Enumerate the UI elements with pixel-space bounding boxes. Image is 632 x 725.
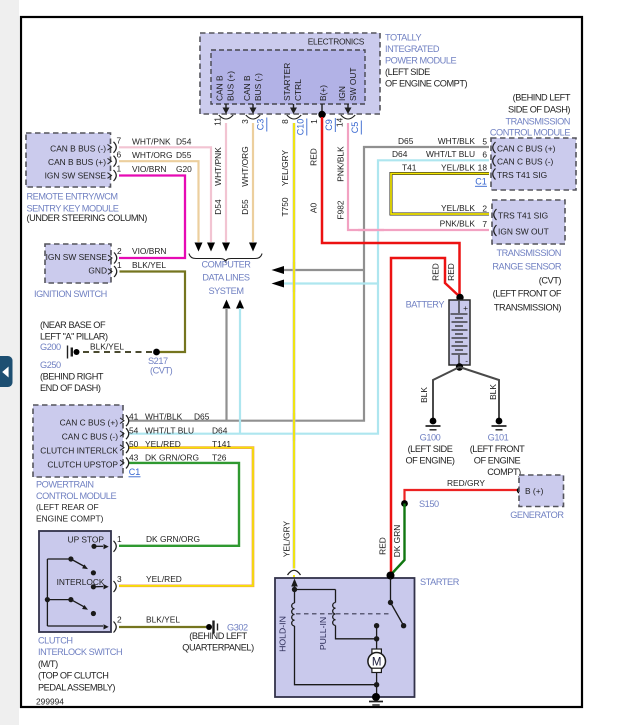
svg-text:DATA LINES: DATA LINES: [202, 273, 250, 283]
module TCM box: [491, 138, 576, 190]
wire YEL/BLK loop TCM pin18 to TRS pin2: [391, 174, 489, 215]
svg-text:CAN C BUS (+): CAN C BUS (+): [60, 418, 119, 428]
caption BATTERY: [406, 300, 445, 310]
wire label BLK/YEL at G200: [90, 342, 124, 352]
svg-text:D65: D65: [194, 411, 210, 421]
TIPM pin number 14: [335, 118, 345, 128]
svg-text:D55: D55: [176, 150, 192, 160]
wire YEL/GRY from TIPM pin 8 to starter: [293, 123, 296, 578]
svg-text:18: 18: [478, 163, 488, 173]
svg-text:QUARTERPANEL): QUARTERPANEL): [182, 642, 254, 652]
svg-text:WHT/ORG: WHT/ORG: [240, 146, 250, 186]
svg-text:BUS (-): BUS (-): [253, 73, 263, 101]
svg-text:G200: G200: [40, 342, 61, 352]
clutch switch label INTERLOCK: [57, 577, 105, 587]
label COMPUTER DATA LINES SYSTEM: [202, 260, 252, 297]
svg-text:1: 1: [117, 260, 122, 270]
wire PNK/BLK from TIPM pin 14 to TRS pin 7: [348, 123, 489, 230]
TIPM pin label STARTER CTRL: [282, 63, 303, 101]
svg-text:IGN SW OUT: IGN SW OUT: [498, 226, 549, 236]
svg-text:OF ENGINE): OF ENGINE): [405, 455, 454, 465]
wire label WHT/ORG vertical: [240, 146, 250, 186]
svg-text:50: 50: [129, 439, 139, 449]
svg-text:LEFT "A" PILLAR): LEFT "A" PILLAR): [40, 332, 108, 342]
caption STARTER: [420, 577, 460, 587]
wire label RED vertical: [309, 148, 319, 166]
wire YEL/RED PCM pin50 to clutch switch pin3: [119, 448, 253, 586]
module TRS box: [492, 200, 565, 244]
caption PCM: [36, 480, 116, 524]
wire label BLK/YEL row: [146, 615, 180, 625]
svg-text:(LEFT REAR OF: (LEFT REAR OF: [36, 502, 99, 512]
svg-text:RANGE SENSOR: RANGE SENSOR: [492, 261, 561, 271]
wire labels VIO/BRN G20 row: [132, 164, 192, 174]
connector label C1 of PCM: [129, 467, 141, 477]
wire PNK/BLK overlay at crossings: [358, 229, 384, 231]
svg-text:WHT/ORG: WHT/ORG: [132, 150, 172, 160]
svg-text:TRANSMISSION: TRANSMISSION: [505, 116, 570, 126]
svg-text:RED: RED: [431, 263, 441, 281]
label S150: [419, 499, 439, 509]
dashed solenoid linkage: [296, 613, 390, 615]
wire RED from battery positive to starter: [391, 258, 460, 574]
svg-text:IGN SW SENSE: IGN SW SENSE: [45, 171, 107, 181]
wire label F982 vertical: [336, 200, 346, 219]
svg-text:CAN C BUS (-): CAN C BUS (-): [62, 432, 119, 442]
svg-text:CONTROL MODULE: CONTROL MODULE: [490, 128, 570, 138]
hold-in coil return wire: [295, 626, 377, 685]
battery positive junction dot: [456, 294, 463, 301]
clutch switch blade 2: [47, 597, 96, 616]
svg-text:6: 6: [117, 149, 122, 159]
data lines left arrow WHT/LT BLU: [272, 280, 285, 288]
svg-text:INTERLOCK: INTERLOCK: [57, 577, 105, 587]
svg-text:C3: C3: [256, 119, 266, 131]
svg-text:BLK: BLK: [419, 387, 429, 403]
wire label BLK left vertical: [419, 387, 429, 403]
wire BLK/YEL clutch pin2 to ground G302: [119, 626, 206, 628]
svg-text:RED: RED: [309, 148, 319, 166]
module TIPM inner box: [211, 50, 365, 104]
svg-text:T26: T26: [212, 453, 227, 463]
ground G100 symbol: [426, 418, 441, 430]
starter switch fixed contact: [374, 623, 379, 649]
module STARTER box: [275, 578, 415, 697]
svg-text:C1: C1: [129, 467, 141, 477]
wire RED from TIPM pin 1 to battery positive: [322, 117, 460, 294]
Remote Entry pin connectors: [108, 142, 117, 181]
svg-text:7: 7: [482, 219, 487, 229]
label HOLD-IN: [278, 616, 288, 652]
generator B(+) terminal dot: [517, 487, 523, 493]
svg-text:D55: D55: [240, 199, 250, 215]
svg-text:BLK/YEL: BLK/YEL: [146, 615, 180, 625]
svg-text:BUS (+): BUS (+): [226, 71, 236, 101]
svg-text:C10: C10: [296, 119, 306, 136]
svg-text:WHT/PNK: WHT/PNK: [132, 136, 171, 146]
TIPM pin label CAN B BUS (-): [242, 73, 263, 101]
svg-text:IGN SW SENSE: IGN SW SENSE: [46, 252, 108, 262]
ground G101 symbol: [492, 418, 507, 430]
wire label VIO/BRN row: [132, 246, 166, 256]
svg-text:CTRL: CTRL: [293, 79, 303, 101]
node COMPUTER DATA LINES SYSTEM down arrows: [195, 243, 258, 252]
svg-text:(BEHIND LEFT: (BEHIND LEFT: [189, 631, 247, 641]
svg-text:T41: T41: [402, 162, 417, 172]
TCM pin connector arcs: [493, 142, 496, 180]
svg-text:3: 3: [240, 119, 250, 124]
svg-text:43: 43: [129, 453, 139, 463]
clutch switch common rail: [45, 559, 50, 626]
label S217 (CVT): [148, 356, 173, 376]
TCM pin numbers 5 6 18: [478, 136, 488, 172]
wire label YEL/BLK row 2: [441, 203, 475, 213]
label PULL-IN: [318, 617, 328, 650]
svg-text:41: 41: [129, 411, 139, 421]
svg-text:GENERATOR: GENERATOR: [510, 510, 564, 520]
svg-text:(CVT): (CVT): [539, 275, 562, 285]
module TIPM outer box ELECTRONICS: [200, 33, 380, 114]
svg-text:PEDAL ASSEMBLY): PEDAL ASSEMBLY): [38, 682, 115, 692]
motor to ground wire: [374, 673, 379, 697]
svg-text:(LEFT SIDE: (LEFT SIDE: [385, 67, 430, 77]
TIPM pin label IGN SW OUT: [337, 68, 358, 102]
svg-text:11: 11: [213, 117, 223, 126]
svg-text:CLUTCH: CLUTCH: [38, 636, 73, 646]
left navigation tab with white arrow: [0, 356, 13, 387]
wire label RED vertical left: [431, 263, 441, 281]
wire labels YEL/BLK T41 row: [402, 162, 475, 172]
svg-text:TRS T41 SIG: TRS T41 SIG: [497, 170, 547, 180]
svg-text:C1: C1: [475, 177, 487, 187]
svg-text:(CVT): (CVT): [150, 366, 173, 376]
footer sheet number 299994: [36, 697, 64, 707]
svg-text:ENGINE COMPT): ENGINE COMPT): [36, 513, 104, 523]
svg-text:COMPUTER: COMPUTER: [202, 260, 252, 270]
svg-text:YEL/BLK: YEL/BLK: [441, 162, 475, 172]
svg-text:14: 14: [335, 118, 345, 128]
svg-text:GND: GND: [88, 266, 107, 276]
svg-text:(LEFT FRONT OF: (LEFT FRONT OF: [493, 289, 562, 299]
svg-text:VIO/BRN: VIO/BRN: [132, 164, 166, 174]
svg-text:D64: D64: [212, 425, 228, 435]
svg-text:WHT/LT BLU: WHT/LT BLU: [426, 149, 475, 159]
wire BLK to ground G101: [460, 367, 500, 418]
svg-text:DK GRN/ORG: DK GRN/ORG: [145, 453, 199, 463]
svg-text:CLUTCH UPSTOP: CLUTCH UPSTOP: [47, 459, 118, 469]
wire RED/GRY generator to splice: [405, 490, 520, 502]
splice S150 dot: [401, 500, 408, 507]
svg-text:CONTROL MODULE: CONTROL MODULE: [36, 491, 116, 501]
wire label YEL/RED row: [146, 574, 182, 584]
svg-text:BLK: BLK: [488, 384, 498, 400]
svg-text:CAN B BUS (+): CAN B BUS (+): [48, 157, 106, 167]
svg-text:INTEGRATED: INTEGRATED: [385, 44, 440, 54]
svg-text:POWERTRAIN: POWERTRAIN: [36, 480, 94, 490]
wire label D54 vertical: [213, 199, 223, 215]
svg-text:M: M: [372, 657, 382, 669]
svg-text:TRANSMISSION): TRANSMISSION): [494, 302, 562, 312]
svg-text:IGNITION SWITCH: IGNITION SWITCH: [34, 289, 107, 299]
battery cell plates: [451, 301, 468, 365]
TIPM pin connector arcs: [219, 115, 355, 119]
module Clutch Interlock Switch box: [39, 531, 111, 632]
svg-text:END OF DASH): END OF DASH): [40, 383, 101, 393]
Ignition switch pin connectors: [108, 253, 117, 278]
wire label RED/GRY: [447, 478, 485, 488]
battery negative junction dot: [456, 363, 463, 370]
svg-text:CAN B: CAN B: [242, 75, 252, 101]
connector label C3: [256, 118, 267, 132]
PCM pin connectors: [120, 415, 129, 468]
wire labels WHT/BLK D65 row: [398, 136, 475, 146]
module Remote Entry/WCM box: [26, 133, 111, 187]
svg-text:T750: T750: [280, 197, 290, 216]
svg-text:8: 8: [280, 119, 290, 124]
svg-text:2: 2: [117, 246, 122, 256]
svg-text:IGN: IGN: [337, 86, 347, 101]
wire DK GRN from S150 to starter junction: [392, 504, 405, 575]
TIPM pin label B(+): [318, 85, 328, 101]
svg-text:-: -: [465, 356, 468, 366]
svg-text:(LEFT SIDE: (LEFT SIDE: [408, 444, 453, 454]
TIPM pin label CAN B BUS (+): [215, 71, 236, 101]
wire label T750 vertical: [280, 197, 290, 216]
PCM row 43: [129, 453, 227, 463]
svg-text:(NEAR BASE OF: (NEAR BASE OF: [40, 320, 106, 330]
svg-text:WHT/LT BLU: WHT/LT BLU: [145, 425, 194, 435]
TIPM pin number 8: [280, 119, 290, 124]
svg-text:(M/T): (M/T): [38, 659, 58, 669]
svg-text:T141: T141: [212, 439, 231, 449]
caption IGNITION SWITCH: [34, 289, 107, 299]
svg-text:YEL/RED: YEL/RED: [145, 439, 181, 449]
svg-text:1: 1: [117, 164, 122, 174]
svg-text:SENTRY KEY MODULE: SENTRY KEY MODULE: [27, 203, 119, 213]
svg-text:DK GRN: DK GRN: [392, 525, 402, 558]
svg-text:C5: C5: [350, 122, 360, 134]
svg-text:OF ENGINE COMPT): OF ENGINE COMPT): [385, 79, 468, 89]
clutch switch pin connector arcs: [114, 541, 117, 633]
caption near G200: [40, 320, 108, 352]
TIPM pin 1 B(+) junction dot: [318, 111, 325, 118]
svg-text:CAN B BUS (-): CAN B BUS (-): [50, 144, 106, 154]
wire label PNK/BLK row 7: [440, 219, 476, 229]
svg-text:6: 6: [482, 149, 487, 159]
svg-text:G101: G101: [488, 432, 509, 442]
ground G302 symbol: [206, 621, 218, 634]
clutch switch bottom wire to pin 2: [47, 624, 108, 629]
svg-text:1: 1: [309, 119, 319, 124]
wire hold-in branch: [295, 590, 336, 604]
svg-text:BLK/YEL: BLK/YEL: [90, 342, 124, 352]
PCM row 54: [129, 425, 228, 435]
svg-text:WHT/BLK: WHT/BLK: [438, 136, 476, 146]
svg-text:SW OUT: SW OUT: [348, 68, 358, 102]
svg-text:TRS T41 SIG: TRS T41 SIG: [498, 210, 548, 220]
module PCM box: [33, 405, 123, 477]
wire WHT/ORG from remote entry pin 6: [119, 161, 199, 242]
module GENERATOR box: [519, 475, 564, 507]
svg-text:B(+): B(+): [318, 85, 328, 101]
svg-text:SYSTEM: SYSTEM: [208, 286, 243, 296]
svg-text:A0: A0: [309, 203, 319, 214]
svg-text:D65: D65: [398, 136, 414, 146]
svg-text:D54: D54: [213, 199, 223, 215]
wire labels WHT/ORG D55 row: [132, 150, 192, 160]
caption TRS: [492, 248, 561, 312]
caption G101: [470, 432, 525, 477]
svg-text:2: 2: [482, 203, 487, 213]
coil PULL-IN: [333, 603, 336, 626]
motor M symbol: [368, 649, 386, 673]
svg-text:5: 5: [482, 136, 487, 146]
TRS pin numbers 2 7: [482, 203, 487, 229]
TIPM pin arrows to module edge: [223, 104, 352, 114]
wire label RED vertical right: [446, 263, 456, 281]
svg-text:SIDE OF DASH): SIDE OF DASH): [508, 105, 570, 115]
clutch switch INTERLOCK contact and arrow to pin 3: [91, 584, 109, 589]
wire VIO/BRN from remote entry pin 1 to ignition switch pin 2: [119, 176, 185, 259]
svg-text:54: 54: [129, 425, 139, 435]
svg-text:PNK/BLK: PNK/BLK: [440, 219, 476, 229]
wire label D55 vertical: [240, 199, 250, 215]
wire label BLK/YEL row: [132, 260, 166, 270]
svg-text:G100: G100: [420, 432, 441, 442]
connector label C5: [350, 121, 361, 135]
wire label RED vertical at starter: [378, 537, 388, 555]
svg-text:TOTALLY: TOTALLY: [385, 33, 421, 43]
svg-text:UP STOP: UP STOP: [68, 535, 105, 545]
svg-text:3: 3: [117, 574, 122, 584]
connector arc on YEL/GRY at starter: [288, 570, 301, 575]
wire BLK to ground G100: [433, 367, 460, 418]
wire label PNK/BLK vertical: [336, 146, 346, 182]
svg-text:+: +: [463, 303, 468, 313]
ground G200 symbol: [68, 346, 80, 359]
svg-text:S150: S150: [419, 499, 439, 509]
caption G250: [40, 360, 104, 393]
svg-text:S217: S217: [148, 356, 168, 366]
battery symbol box: [449, 300, 470, 366]
clutch switch UP STOP contact and arrow to pin 1: [91, 544, 108, 550]
wire WHT/PNK from TIPM pin 11: [225, 123, 227, 242]
caption GENERATOR: [510, 510, 564, 520]
clutch switch label UP STOP: [68, 535, 105, 545]
svg-text:(UNDER STEERING COLUMN): (UNDER STEERING COLUMN): [27, 213, 148, 223]
splice S217 dot: [153, 349, 160, 356]
connector label C9: [324, 118, 335, 132]
svg-text:RED: RED: [446, 263, 456, 281]
svg-text:1: 1: [117, 534, 122, 544]
underbrace for data lines: [189, 254, 262, 263]
starter switch: [388, 578, 407, 628]
svg-text:D64: D64: [392, 149, 408, 159]
clutch switch blade 1: [47, 556, 96, 575]
svg-text:G20: G20: [176, 164, 192, 174]
svg-text:(LEFT FRONT: (LEFT FRONT: [470, 444, 525, 454]
data lines up arrow WHT/LT BLU: [236, 300, 244, 309]
wire label WHT/PNK vertical: [213, 147, 223, 186]
data lines left arrow WHT/BLK: [272, 266, 285, 274]
svg-text:CAN C BUS (+): CAN C BUS (+): [497, 144, 556, 154]
TIPM caption TOTALLY INTEGRATED POWER MODULE: [385, 33, 468, 89]
svg-text:CAN C BUS (-): CAN C BUS (-): [497, 157, 554, 167]
svg-text:(TOP OF CLUTCH: (TOP OF CLUTCH: [38, 671, 108, 681]
svg-text:C9: C9: [324, 119, 334, 131]
clutch switch pin numbers 1 3 2: [117, 534, 122, 625]
svg-text:PULL-IN: PULL-IN: [318, 617, 328, 650]
Ignition switch pin numbers 2 1: [117, 246, 122, 270]
caption remote entry module: [27, 192, 148, 224]
caption G302: [182, 622, 254, 652]
svg-text:RED: RED: [378, 537, 388, 555]
svg-text:G250: G250: [40, 360, 61, 370]
svg-text:(BEHIND RIGHT: (BEHIND RIGHT: [40, 372, 104, 382]
wire WHT/LT BLU net TCM pin6 to PCM pin54: [129, 160, 489, 433]
wire label A0 vertical: [309, 203, 319, 214]
svg-text:REMOTE ENTRY/WCM: REMOTE ENTRY/WCM: [27, 192, 118, 202]
wire WHT/ORG from TIPM pin 3: [252, 123, 254, 242]
module Ignition Switch box: [45, 244, 111, 283]
wire WHT/PNK from remote entry pin 7: [119, 147, 211, 242]
TIPM pin number 11: [213, 117, 223, 126]
starter input arrow from YEL/GRY: [291, 579, 298, 593]
caption clutch interlock switch: [38, 636, 122, 693]
pull-in coil wire to motor node: [336, 626, 377, 639]
svg-text:RED/GRY: RED/GRY: [447, 478, 485, 488]
wire label DK GRN/ORG row: [146, 534, 200, 544]
TIPM pin number 3: [240, 119, 250, 124]
starter junction dot red green: [387, 572, 395, 580]
svg-text:YEL/GRY: YEL/GRY: [280, 150, 290, 187]
svg-text:STARTER: STARTER: [420, 577, 460, 587]
caption G100: [405, 432, 454, 465]
svg-text:PNK/BLK: PNK/BLK: [336, 146, 346, 182]
wire label DK GRN vertical: [392, 525, 402, 558]
svg-text:HOLD-IN: HOLD-IN: [278, 616, 288, 652]
starter ground symbol: [369, 693, 383, 705]
PCM row 50: [129, 439, 231, 449]
coil HOLD-IN: [292, 603, 295, 626]
svg-text:YEL/RED: YEL/RED: [146, 574, 182, 584]
svg-text:B (+): B (+): [525, 486, 544, 496]
svg-text:OF ENGINE: OF ENGINE: [474, 455, 521, 465]
svg-text:WHT/BLK: WHT/BLK: [145, 411, 183, 421]
svg-text:F982: F982: [336, 200, 346, 219]
svg-text:CLUTCH INTERLCK: CLUTCH INTERLCK: [40, 445, 118, 455]
svg-text:299994: 299994: [36, 697, 64, 707]
svg-text:DK GRN/ORG: DK GRN/ORG: [146, 534, 200, 544]
svg-text:WHT/PNK: WHT/PNK: [213, 147, 223, 186]
svg-text:COMPT): COMPT): [487, 467, 521, 477]
wire labels WHT/LT BLU D64 row: [392, 149, 475, 159]
TRS pin connector arcs: [494, 209, 497, 236]
svg-text:ELECTRONICS: ELECTRONICS: [308, 37, 365, 47]
svg-text:BATTERY: BATTERY: [406, 300, 445, 310]
svg-text:D54: D54: [176, 136, 192, 146]
svg-text:CAN B: CAN B: [215, 75, 225, 101]
svg-text:YEL/BLK: YEL/BLK: [441, 203, 475, 213]
TIPM pin number 1: [309, 119, 319, 124]
wire label YEL/GRY vertical top: [280, 150, 290, 187]
wire labels WHT/PNK D54 row: [132, 136, 192, 146]
Remote Entry pin numbers 7 6 1: [117, 136, 122, 174]
wire WHT/BLK net TCM pin5 to PCM pin41: [129, 147, 489, 421]
connector label C10: [296, 119, 307, 136]
wire label YEL/GRY vertical bottom: [282, 521, 292, 558]
svg-text:BLK/YEL: BLK/YEL: [132, 260, 166, 270]
